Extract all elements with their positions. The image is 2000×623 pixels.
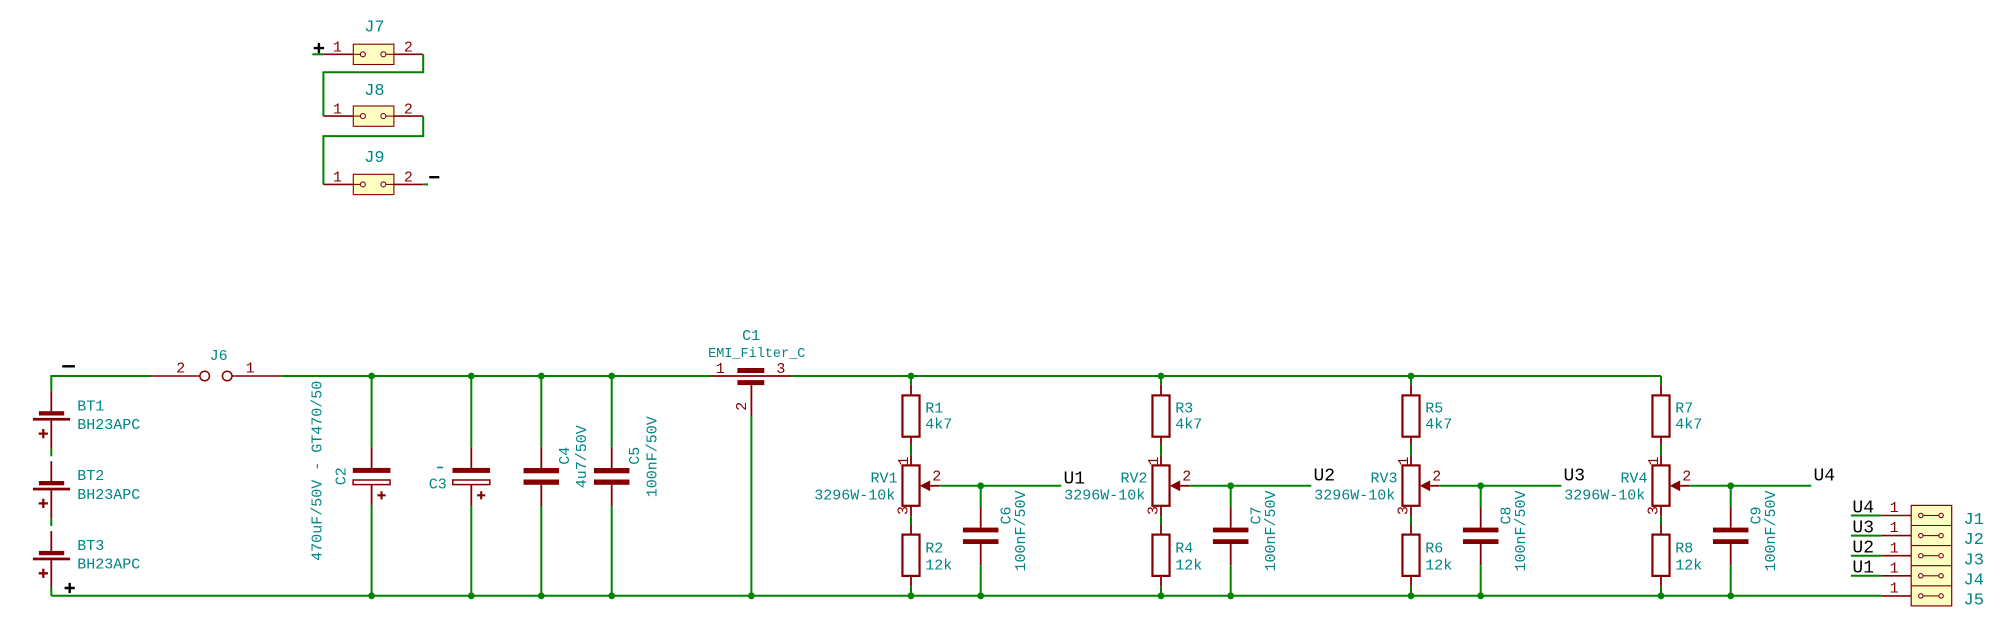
connector J2 pin lead [1881, 535, 1911, 537]
svg-text:3296W-10k: 3296W-10k [1564, 487, 1645, 504]
wire C2 to bottom rail [371, 506, 373, 596]
svg-text:3296W-10k: 3296W-10k [1064, 487, 1145, 504]
svg-text:C3: C3 [429, 476, 447, 493]
wire wiper row to C8 [1480, 486, 1482, 507]
potentiometer RV4 [1652, 456, 1689, 517]
connector J5 pin lead [1881, 595, 1911, 597]
battery BT3 [33, 531, 70, 589]
svg-text:BH23APC: BH23APC [77, 557, 140, 574]
wire net U3 to J2 [1851, 535, 1881, 537]
connector J3 pin lead [1881, 555, 1911, 557]
svg-text:RV2: RV2 [1120, 470, 1147, 487]
wire RV2 to R4 [1160, 516, 1162, 525]
svg-text:BT3: BT3 [77, 538, 104, 555]
svg-text:BT1: BT1 [77, 398, 104, 415]
wire C8 to bottom rail [1480, 565, 1482, 596]
capacitor C5 [594, 447, 630, 506]
connector J4 pin lead [1881, 575, 1911, 577]
junction top of C4 [538, 373, 545, 380]
svg-text:4k7: 4k7 [1175, 417, 1202, 434]
svg-text:R1: R1 [925, 401, 943, 418]
svg-text:2: 2 [404, 170, 413, 187]
wire wiper row to C9 [1730, 486, 1732, 507]
junction bottom of R8 [1658, 592, 1665, 599]
junction wiper at C6 [977, 482, 984, 489]
junction bottom of C9 [1727, 592, 1734, 599]
wire R7 to RV4 [1660, 445, 1662, 456]
svg-text:3: 3 [1146, 506, 1163, 515]
wire C7 to bottom rail [1230, 565, 1232, 596]
wire top rail to C3 [470, 376, 472, 447]
svg-text:BH23APC: BH23APC [77, 487, 140, 504]
svg-text:1: 1 [1890, 581, 1899, 598]
svg-text:R6: R6 [1425, 541, 1443, 558]
wire C3 to bottom rail [470, 506, 472, 596]
svg-text:RV1: RV1 [870, 470, 897, 487]
svg-text:2: 2 [932, 468, 941, 485]
minus mark at J9 pin 2 [429, 176, 439, 178]
plus mark at J7 pin 1 [314, 43, 324, 53]
svg-text:4k7: 4k7 [925, 417, 952, 434]
junction wiper at C8 [1477, 482, 1484, 489]
wire R3 to RV2 [1160, 445, 1162, 456]
C2 plus mark [377, 491, 385, 499]
svg-text:1: 1 [896, 456, 913, 465]
junction top of R1 [908, 373, 915, 380]
svg-text:100nF/50V: 100nF/50V [1263, 490, 1280, 571]
wire C5 to bottom rail [611, 506, 613, 596]
svg-text:BH23APC: BH23APC [77, 417, 140, 434]
wire C4 to bottom rail [540, 506, 542, 596]
capacitor C1 EMI filter [711, 368, 791, 416]
svg-text:100nF/50V: 100nF/50V [644, 416, 661, 497]
junction wiper at C9 [1727, 482, 1734, 489]
svg-text:J4: J4 [1964, 571, 1984, 590]
C3 value label (minus) [437, 467, 443, 469]
svg-text:1: 1 [1890, 560, 1899, 577]
resistor R1 [902, 385, 919, 445]
svg-text:1: 1 [1146, 456, 1163, 465]
svg-text:C1: C1 [742, 328, 760, 345]
svg-text:1: 1 [333, 170, 342, 187]
wire J7 pin 2 to J8 pin 1 [323, 54, 423, 116]
svg-text:R7: R7 [1675, 401, 1693, 418]
wire RV4 wiper to net U4 [1689, 485, 1811, 487]
junction bottom of R6 [1408, 592, 1415, 599]
svg-text:3: 3 [1646, 506, 1663, 515]
wire R8 to bottom rail [1660, 586, 1662, 596]
junction bottom of C2 [368, 592, 375, 599]
svg-text:1: 1 [716, 361, 725, 378]
wire top rail stub to R5 [1410, 376, 1412, 385]
svg-text:C2: C2 [334, 467, 351, 485]
svg-text:2: 2 [404, 40, 413, 57]
resistor R6 [1402, 525, 1419, 586]
svg-text:3296W-10k: 3296W-10k [814, 487, 895, 504]
svg-text:2: 2 [1182, 468, 1191, 485]
svg-text:R8: R8 [1675, 541, 1693, 558]
svg-text:1: 1 [1396, 456, 1413, 465]
junction bottom of C6 [977, 592, 984, 599]
wire RV1 to R2 [910, 516, 912, 525]
resistor R4 [1152, 525, 1169, 586]
wire bottom rail [51, 595, 1881, 597]
svg-text:RV3: RV3 [1370, 470, 1397, 487]
wire C9 to bottom rail [1730, 565, 1732, 596]
svg-text:U4: U4 [1814, 467, 1836, 487]
svg-text:1: 1 [333, 101, 342, 118]
wire R1 to RV1 [910, 445, 912, 456]
svg-text:R2: R2 [925, 541, 943, 558]
capacitor C2 [353, 447, 391, 506]
svg-text:J6: J6 [210, 348, 228, 365]
junction top of C2 [368, 373, 375, 380]
wire net U2 to J3 [1851, 555, 1881, 557]
resistor R5 [1402, 385, 1419, 445]
svg-text:3: 3 [1396, 506, 1413, 515]
junction bottom of C5 [608, 592, 615, 599]
capacitor C4 [524, 447, 560, 506]
junction top of C3 [468, 373, 475, 380]
svg-text:1: 1 [1890, 540, 1899, 557]
wire net U4 to J1 [1851, 515, 1881, 517]
svg-text:2: 2 [176, 361, 185, 378]
resistor R3 [1152, 385, 1169, 445]
svg-text:12k: 12k [1175, 558, 1202, 575]
minus mark battery negative [62, 365, 75, 367]
wire BT3 to bottom rail corner [50, 589, 52, 596]
svg-text:U3: U3 [1852, 518, 1874, 538]
svg-text:R5: R5 [1425, 401, 1443, 418]
svg-text:R3: R3 [1175, 401, 1193, 418]
junction bottom of R2 [908, 592, 915, 599]
connector J1 pin lead [1881, 515, 1911, 517]
svg-text:U2: U2 [1314, 467, 1336, 487]
svg-text:C5: C5 [627, 447, 644, 465]
wire RV3 to R6 [1410, 516, 1412, 525]
svg-text:1: 1 [333, 40, 342, 57]
svg-text:3296W-10k: 3296W-10k [1314, 487, 1395, 504]
wire top rail stub to R1 [910, 376, 912, 385]
svg-text:RV4: RV4 [1620, 470, 1647, 487]
svg-text:2: 2 [404, 101, 413, 118]
svg-text:470uF/50V - GT470/50: 470uF/50V - GT470/50 [310, 381, 327, 561]
connector J6 [152, 371, 281, 381]
junction bottom of C3 [468, 592, 475, 599]
junction top of R3 [1158, 373, 1165, 380]
svg-text:J7: J7 [364, 19, 384, 38]
junction bottom of C4 [538, 592, 545, 599]
capacitor C9 [1713, 507, 1749, 565]
C3 plus mark [477, 491, 485, 499]
wire R5 to RV3 [1410, 445, 1412, 456]
wire between BT2 and BT3 [50, 519, 52, 526]
junction top of R5 [1408, 373, 1415, 380]
plus mark battery positive [65, 583, 75, 593]
junction bottom of R4 [1158, 592, 1165, 599]
svg-text:1: 1 [1890, 500, 1899, 517]
junction bottom of C1 [748, 592, 755, 599]
jumper J8 [323, 106, 423, 126]
svg-text:2: 2 [1682, 468, 1691, 485]
resistor R7 [1652, 385, 1669, 445]
junction wiper at C7 [1227, 482, 1234, 489]
wire top rail to C5 [611, 376, 613, 447]
wire between BT1 and BT2 [50, 449, 52, 456]
BT3 plus mark [39, 569, 48, 578]
svg-text:12k: 12k [1425, 558, 1452, 575]
svg-text:J3: J3 [1964, 551, 1984, 570]
svg-text:2: 2 [734, 402, 751, 411]
svg-text:J1: J1 [1964, 511, 1984, 530]
potentiometer RV1 [902, 456, 939, 517]
svg-text:U2: U2 [1852, 539, 1874, 559]
wire RV2 wiper to net U2 [1189, 485, 1311, 487]
battery BT1 [33, 391, 70, 449]
svg-text:12k: 12k [925, 558, 952, 575]
capacitor C7 [1213, 507, 1249, 565]
svg-text:J9: J9 [364, 149, 384, 168]
wire wiper row to C7 [1230, 486, 1232, 507]
wire C6 to bottom rail [980, 565, 982, 596]
capacitor C8 [1463, 507, 1499, 565]
BT1 plus mark [39, 429, 48, 438]
junction bottom of C7 [1227, 592, 1234, 599]
svg-text:BT2: BT2 [77, 468, 104, 485]
BT2 plus mark [39, 499, 48, 508]
svg-text:3: 3 [896, 506, 913, 515]
wire RV1 wiper to net U1 [939, 485, 1061, 487]
svg-text:1: 1 [246, 361, 255, 378]
junction bottom of C8 [1477, 592, 1484, 599]
wire C1 pin 2 to bottom rail [750, 416, 752, 596]
wire RV3 wiper to net U3 [1439, 485, 1561, 487]
svg-text:U3: U3 [1564, 467, 1586, 487]
svg-text:J2: J2 [1964, 531, 1984, 550]
svg-text:4u7/50V: 4u7/50V [574, 425, 591, 488]
wire R2 to bottom rail [910, 586, 912, 596]
svg-text:U1: U1 [1852, 559, 1874, 579]
svg-text:EMI_Filter_C: EMI_Filter_C [708, 347, 805, 362]
resistor R8 [1652, 525, 1669, 586]
capacitor C3 [453, 447, 491, 506]
svg-text:U1: U1 [1064, 469, 1086, 489]
resistor R2 [902, 525, 919, 586]
svg-text:3: 3 [776, 361, 785, 378]
potentiometer RV2 [1152, 456, 1189, 517]
wire top rail stub to R3 [1160, 376, 1162, 385]
capacitor C6 [963, 507, 999, 565]
wire top rail to C4 [540, 376, 542, 447]
jumper J7 [323, 44, 423, 64]
svg-text:U4: U4 [1852, 498, 1874, 518]
wire top-left corner to J6 [51, 376, 152, 392]
svg-text:1: 1 [1890, 520, 1899, 537]
wire R6 to bottom rail [1410, 586, 1412, 596]
svg-text:100nF/50V: 100nF/50V [1513, 490, 1530, 571]
svg-text:2: 2 [1432, 468, 1441, 485]
wire wiper row to C6 [980, 486, 982, 507]
wire R4 to bottom rail [1160, 586, 1162, 596]
wire stub at J9 pin 2 [423, 183, 428, 185]
svg-text:R4: R4 [1175, 541, 1193, 558]
svg-text:J5: J5 [1964, 592, 1984, 611]
svg-text:4k7: 4k7 [1675, 417, 1702, 434]
svg-text:12k: 12k [1675, 558, 1702, 575]
wire top rail to C2 [371, 376, 373, 447]
wire top rail C1 to R7 column [791, 375, 1661, 377]
svg-text:4k7: 4k7 [1425, 417, 1452, 434]
connector block J1-J5 body [1911, 505, 1952, 606]
battery BT2 [33, 461, 70, 519]
wire net U1 to J4 [1851, 575, 1881, 577]
potentiometer RV3 [1402, 456, 1439, 517]
wire RV4 to R8 [1660, 516, 1662, 525]
junction top of C5 [608, 373, 615, 380]
jumper J9 [323, 174, 423, 194]
wire J8 pin 2 to J9 pin 1 [323, 116, 423, 184]
wire top rail J6 to C1 [281, 375, 711, 377]
svg-text:J8: J8 [364, 82, 384, 101]
wire stub into J7 pin 1 [312, 53, 323, 55]
wire top rail corner down to R7 [1660, 376, 1662, 385]
svg-text:100nF/50V: 100nF/50V [1763, 490, 1780, 571]
svg-text:100nF/50V: 100nF/50V [1013, 490, 1030, 571]
svg-text:C4: C4 [557, 447, 574, 465]
svg-text:1: 1 [1646, 456, 1663, 465]
